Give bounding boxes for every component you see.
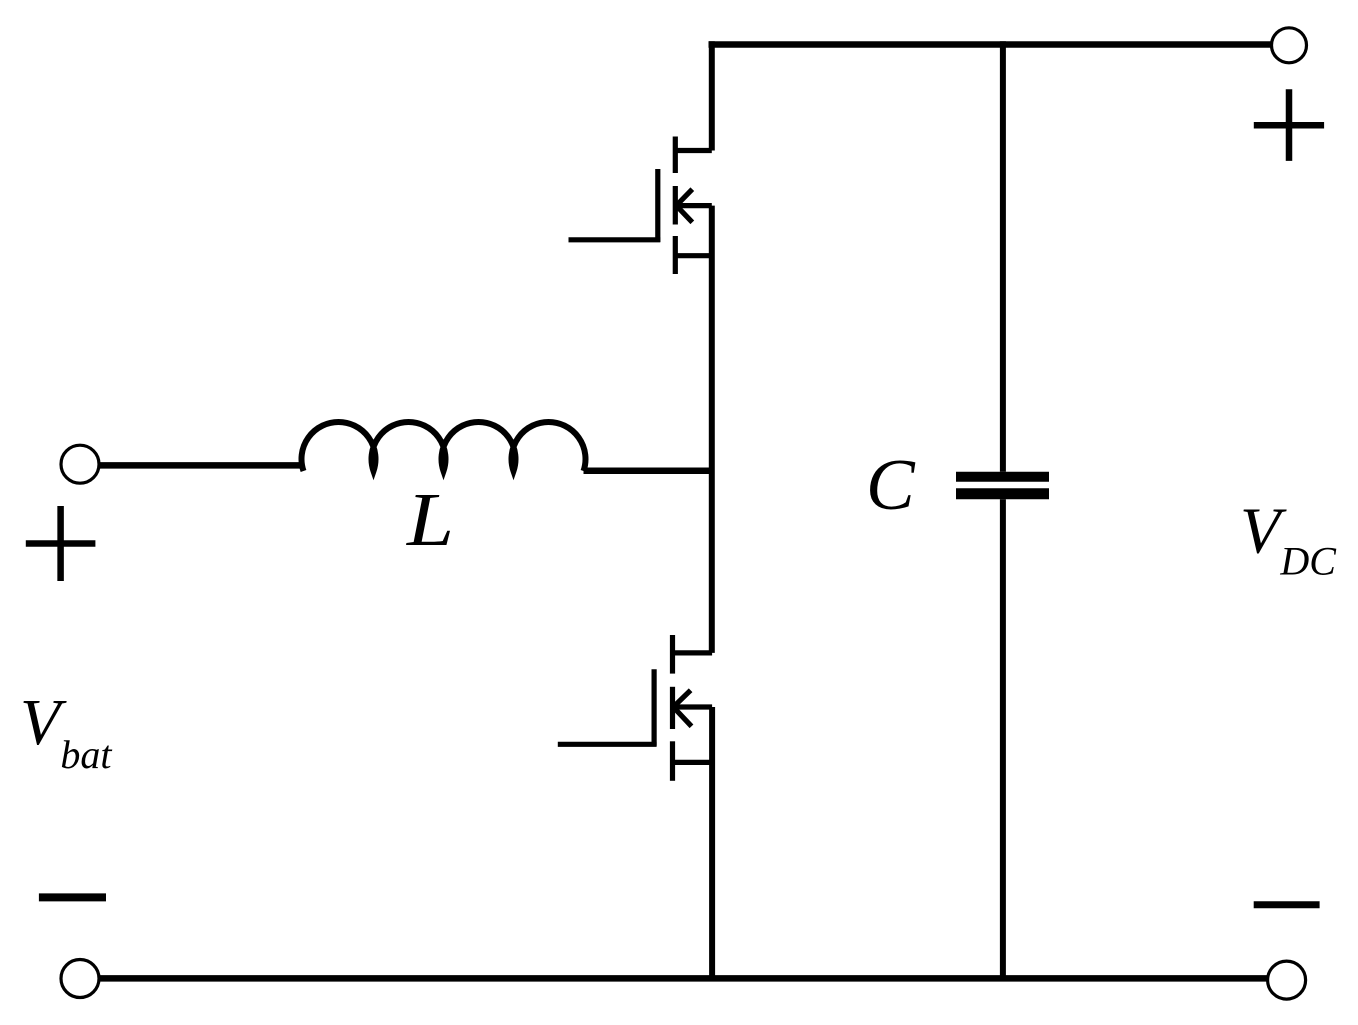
terminal battery top-left xyxy=(61,445,99,483)
wire top rail xyxy=(709,41,1272,48)
transistor Q2 (lower MOSFET) xyxy=(558,635,712,781)
wire capacitor bottom xyxy=(1000,499,1006,978)
plus sign (V_bat) xyxy=(26,506,96,581)
plus sign (V_DC) xyxy=(1254,89,1324,161)
inductor L xyxy=(302,422,586,471)
wire node vertical (Q1 source to Q2 drain) xyxy=(709,206,715,653)
terminal battery bottom-left xyxy=(61,960,99,998)
minus sign (V_DC) xyxy=(1254,901,1320,908)
terminal output bottom-right xyxy=(1268,961,1306,999)
minus sign (V_bat) xyxy=(39,893,106,901)
wire Q2 source to bottom rail xyxy=(709,707,715,978)
terminal output top-right xyxy=(1272,28,1307,63)
capacitor C plates xyxy=(956,472,1049,482)
wire capacitor top xyxy=(1000,41,1006,471)
transistor Q1 (upper MOSFET) xyxy=(569,137,712,275)
wire battery to inductor xyxy=(98,462,304,469)
svg-text:C: C xyxy=(866,444,916,525)
wire inductor to node xyxy=(584,468,715,475)
svg-text:L: L xyxy=(406,478,454,562)
wire Q1 drain from top rail xyxy=(709,41,715,150)
wire bottom rail xyxy=(99,975,1267,982)
